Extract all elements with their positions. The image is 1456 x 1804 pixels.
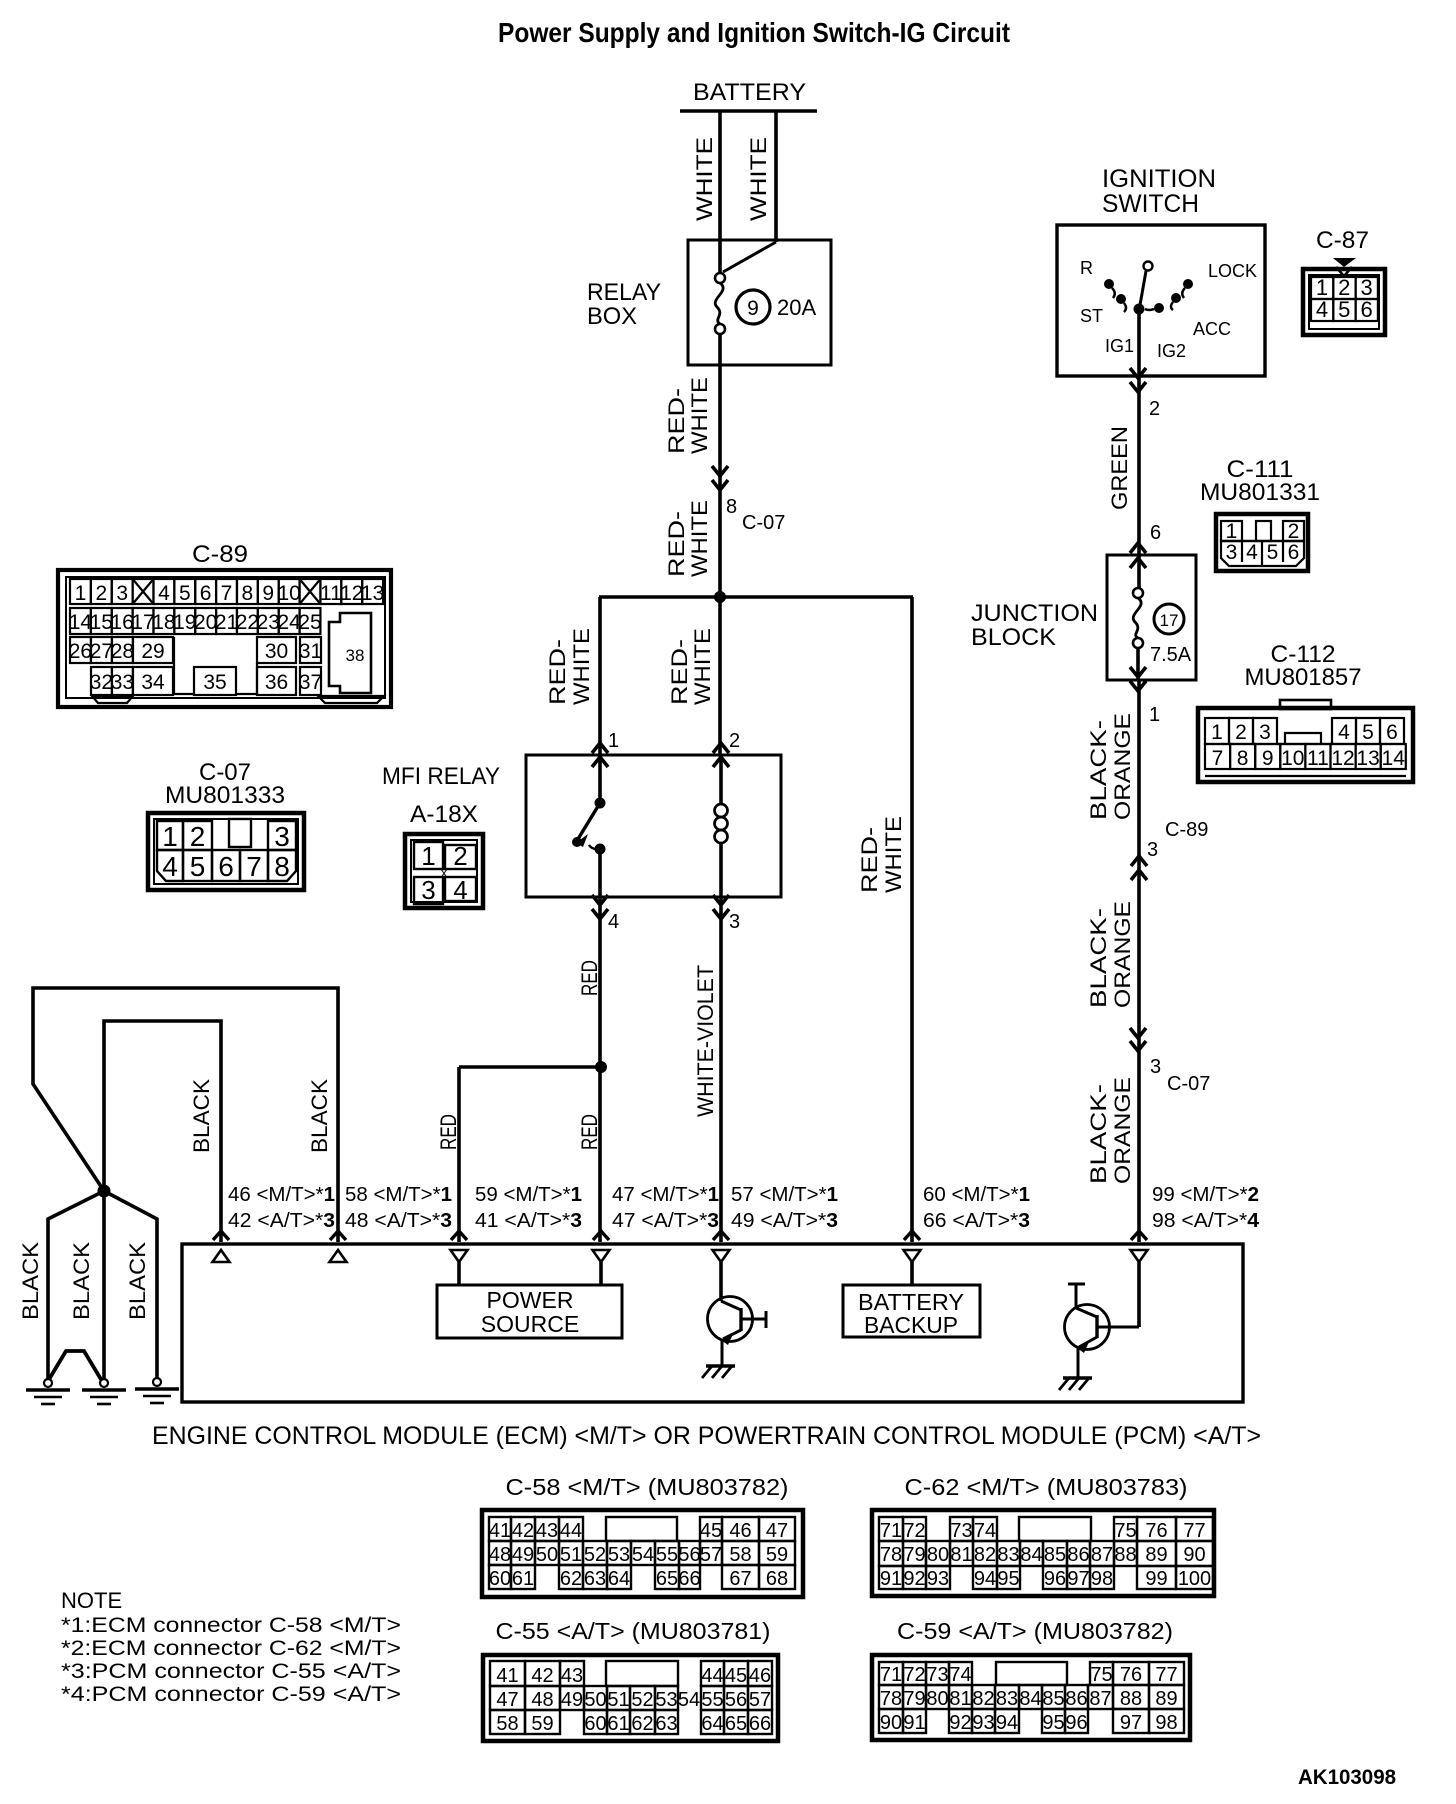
svg-text:WHITE: WHITE <box>692 137 717 221</box>
transistor Q1 <box>708 1262 767 1366</box>
svg-text:BOX: BOX <box>587 303 637 330</box>
connector C-07 <box>148 759 304 890</box>
svg-text:41: 41 <box>489 1520 511 1542</box>
svg-text:5: 5 <box>1267 541 1279 564</box>
svg-text:RED-: RED- <box>667 639 692 705</box>
svg-text:57 <M/T>*1: 57 <M/T>*1 <box>731 1184 838 1206</box>
connector table C-55 <box>483 1618 778 1741</box>
svg-text:RED: RED <box>577 960 602 996</box>
svg-text:C-07: C-07 <box>742 512 785 534</box>
MFI relay pin 2 <box>713 730 740 767</box>
svg-text:ORANGE: ORANGE <box>1110 1077 1135 1184</box>
svg-text:BACKUP: BACKUP <box>864 1312 958 1338</box>
svg-text:49: 49 <box>512 1544 534 1566</box>
svg-text:91: 91 <box>903 1712 925 1734</box>
svg-text:49: 49 <box>561 1689 583 1711</box>
svg-text:99 <M/T>*2: 99 <M/T>*2 <box>1152 1184 1259 1206</box>
svg-text:BLACK: BLACK <box>69 1242 94 1320</box>
MFI relay box <box>382 755 781 897</box>
wire battery left WHITE <box>692 111 720 273</box>
svg-text:87: 87 <box>1091 1544 1113 1566</box>
svg-text:68: 68 <box>766 1568 788 1590</box>
ignition switch rotary contact <box>1104 262 1193 377</box>
svg-text:38: 38 <box>346 646 365 665</box>
svg-text:BLACK: BLACK <box>125 1242 150 1320</box>
ECM box <box>182 1244 1243 1402</box>
svg-text:64: 64 <box>608 1568 630 1590</box>
svg-text:6: 6 <box>1150 522 1161 544</box>
svg-text:48 <A/T>*3: 48 <A/T>*3 <box>345 1210 452 1232</box>
svg-text:WHITE: WHITE <box>746 137 771 221</box>
connector table C-62 <box>872 1474 1214 1596</box>
svg-text:1: 1 <box>421 841 435 871</box>
svg-text:2: 2 <box>1149 398 1160 420</box>
wire ground loop inner BLACK <box>104 1021 221 1242</box>
svg-text:45: 45 <box>725 1665 747 1687</box>
svg-text:5: 5 <box>190 851 206 882</box>
svg-text:44: 44 <box>560 1520 582 1542</box>
svg-text:95: 95 <box>1042 1712 1064 1734</box>
svg-text:26: 26 <box>69 640 92 663</box>
svg-text:90: 90 <box>1183 1544 1205 1566</box>
svg-text:MU801333: MU801333 <box>165 782 285 809</box>
svg-text:BLACK-: BLACK- <box>1086 908 1111 1008</box>
svg-text:47 <M/T>*1: 47 <M/T>*1 <box>612 1184 719 1206</box>
svg-text:7: 7 <box>246 851 262 882</box>
svg-text:46: 46 <box>749 1665 771 1687</box>
svg-text:55: 55 <box>656 1544 678 1566</box>
connector C-87 <box>1303 227 1385 335</box>
svg-text:x: x <box>441 865 448 880</box>
svg-text:50: 50 <box>584 1689 606 1711</box>
svg-text:85: 85 <box>1042 1688 1064 1710</box>
svg-text:A-18X: A-18X <box>410 801 478 828</box>
svg-text:66: 66 <box>678 1568 700 1590</box>
MFI relay pin 1 <box>592 730 619 767</box>
svg-text:BLACK-: BLACK- <box>1086 1084 1111 1184</box>
svg-text:52: 52 <box>584 1544 606 1566</box>
svg-text:97: 97 <box>1120 1712 1142 1734</box>
svg-text:94: 94 <box>974 1568 996 1590</box>
svg-text:47 <A/T>*3: 47 <A/T>*3 <box>612 1210 719 1232</box>
svg-text:86: 86 <box>1067 1544 1089 1566</box>
svg-text:23: 23 <box>257 611 280 634</box>
battery B1 <box>680 79 817 111</box>
svg-text:60: 60 <box>584 1713 606 1735</box>
svg-text:49 <A/T>*3: 49 <A/T>*3 <box>731 1210 838 1232</box>
svg-text:4: 4 <box>608 911 619 933</box>
svg-text:BLACK: BLACK <box>18 1242 43 1320</box>
junction block entry pin 6 <box>1130 522 1161 568</box>
svg-text:4: 4 <box>158 582 170 605</box>
svg-text:NOTE: NOTE <box>61 1588 122 1613</box>
ignition switch positions <box>1080 258 1257 361</box>
node A <box>714 591 726 603</box>
svg-text:5: 5 <box>1362 721 1374 744</box>
svg-text:2: 2 <box>1288 520 1300 543</box>
svg-text:5: 5 <box>1338 297 1350 322</box>
svg-text:6: 6 <box>218 851 234 882</box>
svg-text:WHITE: WHITE <box>687 377 712 454</box>
svg-text:51: 51 <box>560 1544 582 1566</box>
svg-text:WHITE: WHITE <box>881 816 906 893</box>
svg-text:POWER: POWER <box>487 1287 574 1313</box>
svg-text:8: 8 <box>1237 747 1249 770</box>
svg-text:SWITCH: SWITCH <box>1102 190 1199 218</box>
connector table C-58 <box>482 1474 803 1597</box>
wire ground loop outer BLACK <box>33 988 338 1242</box>
svg-text:59: 59 <box>766 1544 788 1566</box>
svg-text:46: 46 <box>729 1520 751 1542</box>
svg-text:C-62 <M/T> (MU803783): C-62 <M/T> (MU803783) <box>905 1474 1188 1500</box>
wire MFI pin4 RED <box>577 897 602 1242</box>
ground G2 <box>100 1379 108 1387</box>
svg-text:53: 53 <box>608 1544 630 1566</box>
ground G1 <box>44 1379 52 1387</box>
svg-text:3: 3 <box>1226 541 1238 564</box>
svg-text:11: 11 <box>320 582 342 605</box>
svg-text:64: 64 <box>701 1713 723 1735</box>
svg-text:83: 83 <box>996 1688 1018 1710</box>
svg-text:52: 52 <box>631 1689 653 1711</box>
svg-text:WHITE: WHITE <box>569 628 594 705</box>
svg-text:ORANGE: ORANGE <box>1110 901 1135 1008</box>
svg-text:42 <A/T>*3: 42 <A/T>*3 <box>228 1210 335 1232</box>
wire BLACK-ORANGE upper <box>1086 680 1139 1242</box>
svg-text:48: 48 <box>489 1544 511 1566</box>
wire branch left RED-WHITE <box>545 597 600 755</box>
MFI relay contact switch <box>572 755 606 897</box>
svg-text:79: 79 <box>903 1544 925 1566</box>
svg-text:41: 41 <box>496 1665 518 1687</box>
svg-text:63: 63 <box>655 1713 677 1735</box>
svg-text:89: 89 <box>1155 1688 1177 1710</box>
svg-text:99: 99 <box>1145 1568 1167 1590</box>
svg-text:WHITE: WHITE <box>687 500 712 577</box>
svg-text:4: 4 <box>162 851 178 882</box>
ground Q1 chassis <box>702 1366 735 1378</box>
svg-text:72: 72 <box>903 1520 925 1542</box>
svg-text:WHITE: WHITE <box>690 628 715 705</box>
svg-text:87: 87 <box>1089 1688 1111 1710</box>
wire branch center RED-WHITE <box>667 597 720 755</box>
wire to ground left BLACK <box>18 1191 104 1381</box>
svg-text:76: 76 <box>1120 1664 1142 1686</box>
svg-text:3: 3 <box>1259 721 1271 744</box>
svg-text:75: 75 <box>1090 1664 1112 1686</box>
svg-text:96: 96 <box>1044 1568 1066 1590</box>
ground G3 <box>153 1378 161 1386</box>
svg-text:81: 81 <box>950 1544 972 1566</box>
svg-text:95: 95 <box>997 1568 1019 1590</box>
svg-text:71: 71 <box>880 1664 902 1686</box>
svg-text:86: 86 <box>1065 1688 1087 1710</box>
svg-text:41 <A/T>*3: 41 <A/T>*3 <box>475 1210 582 1232</box>
ECM pin 47 <box>593 1184 720 1262</box>
svg-text:44: 44 <box>701 1665 723 1687</box>
svg-text:62: 62 <box>631 1713 653 1735</box>
svg-text:20: 20 <box>194 611 217 634</box>
node ground junction <box>98 1185 111 1198</box>
svg-text:72: 72 <box>903 1664 925 1686</box>
svg-text:10: 10 <box>1281 747 1304 770</box>
svg-text:58: 58 <box>496 1713 518 1735</box>
svg-text:5: 5 <box>179 582 191 605</box>
wire ignition GREEN pin 2 <box>1107 368 1160 555</box>
ECM pin 58 <box>330 1184 453 1262</box>
svg-text:92: 92 <box>903 1568 925 1590</box>
svg-text:MFI RELAY: MFI RELAY <box>382 763 500 790</box>
wire branch right RED-WHITE to ECM pin 60 <box>857 597 912 1242</box>
svg-text:100: 100 <box>1178 1568 1211 1590</box>
ECM pin 99 <box>1131 1184 1260 1262</box>
svg-text:36: 36 <box>265 671 288 694</box>
svg-text:6: 6 <box>1386 721 1398 744</box>
svg-text:7: 7 <box>1212 747 1224 770</box>
svg-text:1: 1 <box>1226 520 1238 543</box>
svg-text:RED-: RED- <box>545 639 570 705</box>
svg-text:88: 88 <box>1120 1688 1142 1710</box>
svg-text:IG2: IG2 <box>1157 341 1186 361</box>
svg-text:C-58 <M/T> (MU803782): C-58 <M/T> (MU803782) <box>506 1474 789 1500</box>
connector C-89 <box>58 541 391 707</box>
wire to ground right BLACK <box>104 1191 157 1381</box>
svg-text:6: 6 <box>1288 541 1300 564</box>
svg-text:*2:ECM connector C-62 <M/T>: *2:ECM connector C-62 <M/T> <box>61 1637 401 1660</box>
svg-text:80: 80 <box>926 1688 948 1710</box>
svg-text:C-07: C-07 <box>1167 1073 1210 1095</box>
svg-text:85: 85 <box>1044 1544 1066 1566</box>
svg-text:56: 56 <box>678 1544 700 1566</box>
svg-text:42: 42 <box>531 1665 553 1687</box>
connector C-111 <box>1200 456 1320 571</box>
svg-text:80: 80 <box>927 1544 949 1566</box>
wire battery right WHITE <box>746 111 776 242</box>
svg-text:58: 58 <box>729 1544 751 1566</box>
svg-text:57: 57 <box>700 1544 722 1566</box>
svg-text:84: 84 <box>1020 1544 1042 1566</box>
svg-text:13: 13 <box>361 582 384 605</box>
svg-text:4: 4 <box>1316 297 1328 322</box>
svg-text:77: 77 <box>1155 1664 1177 1686</box>
power source block <box>437 1262 622 1338</box>
svg-text:33: 33 <box>111 671 134 694</box>
svg-text:RED-: RED- <box>664 511 689 577</box>
svg-text:3: 3 <box>1150 1056 1161 1078</box>
svg-text:2: 2 <box>729 730 740 752</box>
node B branch to pin 59 <box>436 1061 607 1242</box>
svg-text:RED-: RED- <box>664 388 689 454</box>
svg-text:57: 57 <box>749 1689 771 1711</box>
svg-text:89: 89 <box>1145 1544 1167 1566</box>
svg-text:82: 82 <box>974 1544 996 1566</box>
svg-text:13: 13 <box>1356 747 1379 770</box>
MFI relay pin 3 <box>713 895 740 933</box>
relay box <box>587 240 831 365</box>
svg-text:73: 73 <box>926 1664 948 1686</box>
svg-text:GREEN: GREEN <box>1107 426 1132 510</box>
svg-text:2: 2 <box>453 841 467 871</box>
svg-text:IG1: IG1 <box>1105 336 1134 356</box>
svg-text:R: R <box>1080 258 1093 278</box>
svg-text:4: 4 <box>453 875 467 905</box>
svg-text:61: 61 <box>512 1568 534 1590</box>
svg-text:74: 74 <box>974 1520 996 1542</box>
svg-text:4: 4 <box>1338 721 1350 744</box>
note text <box>61 1588 401 1706</box>
svg-text:8: 8 <box>242 582 254 605</box>
svg-text:91: 91 <box>880 1568 902 1590</box>
svg-text:MU801331: MU801331 <box>1200 479 1320 506</box>
svg-text:JUNCTION: JUNCTION <box>971 600 1098 627</box>
connector crossing 8 C-07 <box>664 466 785 577</box>
svg-text:47: 47 <box>766 1520 788 1542</box>
svg-text:WHITE-VIOLET: WHITE-VIOLET <box>693 965 718 1117</box>
svg-text:*3:PCM connector C-55 <A/T>: *3:PCM connector C-55 <A/T> <box>61 1660 401 1683</box>
svg-text:35: 35 <box>203 671 226 694</box>
svg-text:1: 1 <box>1211 721 1223 744</box>
svg-text:16: 16 <box>110 611 133 634</box>
svg-text:58 <M/T>*1: 58 <M/T>*1 <box>345 1184 452 1206</box>
svg-text:7.5A: 7.5A <box>1150 644 1192 666</box>
connector C-112 <box>1198 641 1413 782</box>
svg-text:12: 12 <box>340 582 363 605</box>
svg-text:81: 81 <box>949 1688 971 1710</box>
svg-text:65: 65 <box>725 1713 747 1735</box>
svg-text:BLACK: BLACK <box>189 1079 214 1153</box>
svg-text:73: 73 <box>950 1520 972 1542</box>
svg-text:53: 53 <box>655 1689 677 1711</box>
connector A-18X <box>405 801 483 908</box>
svg-text:77: 77 <box>1183 1520 1205 1542</box>
svg-text:17: 17 <box>131 611 154 634</box>
svg-text:BLACK-: BLACK- <box>1086 720 1111 820</box>
ECM pin 59 <box>451 1184 583 1262</box>
svg-text:45: 45 <box>700 1520 722 1542</box>
svg-text:C-89: C-89 <box>192 541 248 568</box>
svg-text:20A: 20A <box>777 295 816 320</box>
svg-text:78: 78 <box>880 1544 902 1566</box>
svg-text:8: 8 <box>726 496 737 518</box>
svg-text:2: 2 <box>95 582 107 605</box>
svg-text:34: 34 <box>141 671 165 694</box>
svg-text:19: 19 <box>173 611 196 634</box>
connector crossing 3 C-89 <box>1086 819 1208 1008</box>
svg-text:37: 37 <box>299 671 322 694</box>
svg-text:66: 66 <box>749 1713 771 1735</box>
svg-text:MU801857: MU801857 <box>1245 664 1362 691</box>
svg-text:SOURCE: SOURCE <box>481 1311 579 1337</box>
svg-text:43: 43 <box>536 1520 558 1542</box>
svg-text:46 <M/T>*1: 46 <M/T>*1 <box>228 1184 335 1206</box>
svg-text:2: 2 <box>190 821 206 852</box>
wire MFI pin3 WHITE-VIOLET <box>693 897 721 1242</box>
svg-text:3: 3 <box>729 911 740 933</box>
svg-text:ENGINE CONTROL MODULE (ECM) <M: ENGINE CONTROL MODULE (ECM) <M/T> OR POW… <box>152 1422 1261 1450</box>
svg-text:43: 43 <box>561 1665 583 1687</box>
svg-text:*4:PCM connector C-59 <A/T>: *4:PCM connector C-59 <A/T> <box>61 1683 401 1706</box>
svg-text:56: 56 <box>725 1689 747 1711</box>
svg-text:ORANGE: ORANGE <box>1110 713 1135 820</box>
svg-text:97: 97 <box>1067 1568 1089 1590</box>
svg-text:18: 18 <box>152 611 175 634</box>
transistor Q2 <box>1065 1262 1140 1378</box>
ground Q2 chassis <box>1059 1378 1092 1390</box>
svg-text:74: 74 <box>949 1664 971 1686</box>
svg-text:RED: RED <box>436 1114 461 1150</box>
fuse F17 7.5A <box>1133 555 1192 680</box>
svg-text:4: 4 <box>1246 541 1258 564</box>
svg-text:71: 71 <box>880 1520 902 1542</box>
svg-text:RELAY: RELAY <box>587 279 661 306</box>
svg-text:42: 42 <box>512 1520 534 1542</box>
svg-text:67: 67 <box>729 1568 751 1590</box>
wire bus horizontal <box>599 595 913 598</box>
svg-text:54: 54 <box>632 1544 654 1566</box>
svg-text:94: 94 <box>996 1712 1018 1734</box>
svg-text:32: 32 <box>90 671 113 694</box>
svg-text:76: 76 <box>1145 1520 1167 1542</box>
svg-text:1: 1 <box>162 821 178 852</box>
svg-text:98: 98 <box>1155 1712 1177 1734</box>
svg-text:BATTERY: BATTERY <box>693 79 806 106</box>
svg-text:29: 29 <box>141 640 164 663</box>
svg-text:Power Supply and Ignition Swit: Power Supply and Ignition Switch-IG Circ… <box>498 17 1010 48</box>
connector C-89 cells <box>69 579 385 703</box>
svg-text:21: 21 <box>215 611 238 634</box>
svg-text:30: 30 <box>265 640 288 663</box>
svg-text:59: 59 <box>531 1713 553 1735</box>
svg-text:88: 88 <box>1114 1544 1136 1566</box>
svg-text:17: 17 <box>1160 611 1179 630</box>
connector table C-59 <box>872 1618 1190 1740</box>
svg-text:*1:ECM connector C-58 <M/T>: *1:ECM connector C-58 <M/T> <box>61 1614 401 1637</box>
connector crossing 3 C-07 lower <box>1086 1028 1210 1184</box>
svg-text:22: 22 <box>236 611 259 634</box>
svg-text:55: 55 <box>701 1689 723 1711</box>
svg-text:C-89: C-89 <box>1165 819 1208 841</box>
fuse F9 20A <box>715 242 816 365</box>
svg-text:83: 83 <box>997 1544 1019 1566</box>
svg-text:RED: RED <box>577 1114 602 1150</box>
ground bond tent <box>48 1351 102 1381</box>
svg-text:15: 15 <box>90 611 113 634</box>
svg-text:2: 2 <box>1235 721 1247 744</box>
svg-text:59 <M/T>*1: 59 <M/T>*1 <box>475 1184 582 1206</box>
svg-text:93: 93 <box>972 1712 994 1734</box>
svg-text:61: 61 <box>607 1713 629 1735</box>
junction block exit pin 1 <box>1130 667 1160 726</box>
svg-text:C-55 <A/T> (MU803781): C-55 <A/T> (MU803781) <box>496 1618 771 1644</box>
svg-text:BLACK: BLACK <box>307 1079 332 1153</box>
junction block box <box>971 555 1196 680</box>
svg-text:3: 3 <box>116 582 128 605</box>
MFI relay coil <box>715 755 728 897</box>
svg-text:1: 1 <box>75 582 87 605</box>
svg-text:47: 47 <box>496 1689 518 1711</box>
svg-text:C-59 <A/T> (MU803782): C-59 <A/T> (MU803782) <box>897 1618 1173 1644</box>
svg-text:ST: ST <box>1080 306 1103 326</box>
svg-text:60: 60 <box>489 1568 511 1590</box>
svg-text:12: 12 <box>1331 747 1354 770</box>
svg-text:1: 1 <box>1149 704 1160 726</box>
svg-text:82: 82 <box>972 1688 994 1710</box>
svg-text:9: 9 <box>747 297 759 320</box>
svg-text:31: 31 <box>299 640 322 663</box>
svg-text:50: 50 <box>536 1544 558 1566</box>
svg-text:79: 79 <box>903 1688 925 1710</box>
svg-text:63: 63 <box>584 1568 606 1590</box>
